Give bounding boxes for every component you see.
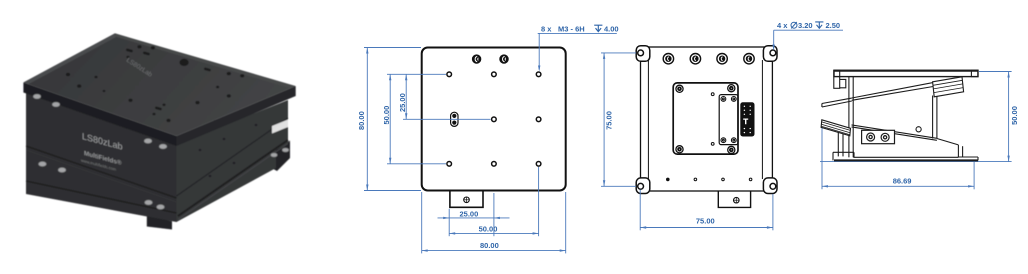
svg-text:50.00: 50.00 [382, 106, 391, 125]
svg-text:80.00: 80.00 [357, 111, 366, 130]
svg-text:4 x: 4 x [777, 21, 788, 30]
svg-text:50.00: 50.00 [479, 225, 498, 234]
svg-text:25.00: 25.00 [460, 209, 479, 218]
svg-text:M3 - 6H: M3 - 6H [558, 25, 585, 34]
svg-text:4.00: 4.00 [604, 25, 619, 34]
svg-text:50.00: 50.00 [1010, 106, 1019, 125]
svg-text:25.00: 25.00 [398, 93, 407, 112]
svg-text:2.50: 2.50 [826, 21, 841, 30]
svg-text:80.00: 80.00 [480, 241, 499, 250]
svg-text:8 x: 8 x [541, 25, 552, 34]
svg-text:75.00: 75.00 [604, 111, 613, 130]
svg-text:75.00: 75.00 [696, 217, 715, 226]
svg-text:3.20: 3.20 [798, 21, 813, 30]
svg-text:86.69: 86.69 [893, 176, 912, 185]
